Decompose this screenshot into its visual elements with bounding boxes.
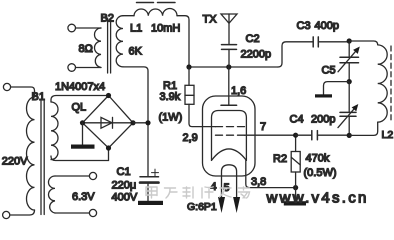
resistor R1 3.9k 1W <box>159 67 216 127</box>
svg-text:7: 7 <box>260 121 266 133</box>
wire cathode 3,8 <box>246 160 298 190</box>
capacitor C1 220u 400V <box>112 166 159 204</box>
svg-text:R2: R2 <box>273 153 287 165</box>
svg-text:6K: 6K <box>129 46 143 58</box>
bridge rectifier QL 1N4007x4 <box>55 81 136 151</box>
ground (bridge) <box>71 123 95 149</box>
transformer B2 <box>68 13 143 74</box>
svg-text:L2: L2 <box>382 129 394 141</box>
inductor L1 10mH <box>123 3 189 68</box>
svg-text:www.v4s.cn: www.v4s.cn <box>266 190 369 207</box>
svg-text:(0.5W): (0.5W) <box>304 167 337 179</box>
wire bus to C3 <box>278 42 313 67</box>
ground (R2) <box>284 188 306 206</box>
svg-text:8Ω: 8Ω <box>79 43 93 55</box>
svg-text:470k: 470k <box>306 153 330 165</box>
svg-text:6.3V: 6.3V <box>72 191 95 203</box>
svg-text:G:6P1: G:6P1 <box>187 201 217 213</box>
svg-text:QL: QL <box>72 102 87 114</box>
watermark <box>146 187 250 198</box>
capacitor C3 400p <box>297 20 350 47</box>
svg-text:400V: 400V <box>112 192 138 204</box>
svg-text:TX: TX <box>203 14 218 26</box>
variable capacitor C5 (section 2) <box>338 79 358 138</box>
svg-text:C1: C1 <box>117 166 131 178</box>
svg-text:2200p: 2200p <box>241 49 272 61</box>
wire B+ node <box>123 67 151 177</box>
ground (C5) <box>315 82 349 98</box>
svg-text:1,6: 1,6 <box>231 85 246 97</box>
svg-text:L1: L1 <box>130 23 142 35</box>
ground (C1) <box>138 201 163 205</box>
svg-text:220V: 220V <box>2 156 28 168</box>
wire B+ bus <box>186 64 278 69</box>
svg-text:C4: C4 <box>290 114 304 126</box>
svg-text:3.9k: 3.9k <box>160 91 181 103</box>
svg-text:(1W): (1W) <box>159 112 183 124</box>
transformer B1 <box>2 83 109 218</box>
svg-text:1N4007x4: 1N4007x4 <box>55 81 105 93</box>
svg-text:C3: C3 <box>297 20 311 32</box>
svg-text:220μ: 220μ <box>112 180 137 192</box>
svg-text:400p: 400p <box>315 20 339 32</box>
svg-text:C2: C2 <box>246 33 260 45</box>
capacitor C4 200p <box>290 114 350 140</box>
svg-text:C5: C5 <box>322 65 336 77</box>
svg-text:200p: 200p <box>311 114 335 126</box>
capacitor C2 2200p <box>222 33 272 67</box>
svg-text:2,9: 2,9 <box>183 132 198 144</box>
variable capacitor C5 (section 1) <box>322 38 360 81</box>
svg-text:B1: B1 <box>32 91 45 103</box>
inductor L2 <box>349 41 393 141</box>
antenna TX <box>203 14 238 45</box>
svg-text:10mH: 10mH <box>151 23 180 35</box>
resistor R2 470k 0.5W <box>273 135 337 187</box>
vacuum tube U1 G:6P1 <box>183 67 296 213</box>
svg-text:3,8: 3,8 <box>251 176 266 188</box>
svg-text:B2: B2 <box>101 13 114 25</box>
